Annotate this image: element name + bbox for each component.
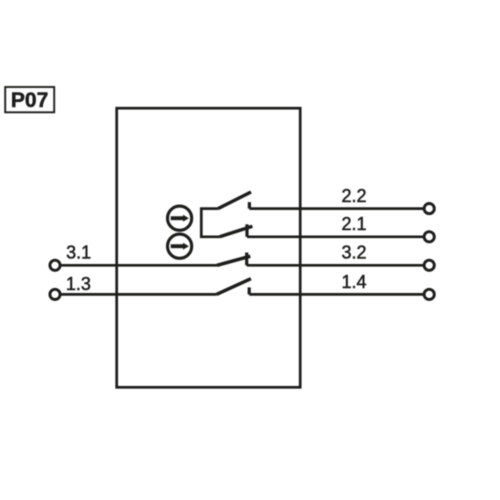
svg-text:2.2: 2.2	[341, 186, 366, 206]
svg-text:1.4: 1.4	[341, 272, 366, 292]
enclosure outline	[117, 108, 301, 387]
terminal 3.1	[50, 260, 60, 270]
fixed contact 3.2	[245, 253, 248, 266]
contact lever 2.1	[220, 226, 253, 237]
terminal 3.2	[424, 260, 434, 270]
contact lever 3.2	[217, 256, 250, 265]
terminal 1.3	[50, 289, 60, 299]
common bracket linking contacts 2.2 / 2.1	[201, 209, 219, 237]
terminal 2.2	[424, 204, 434, 214]
contact lever 1.4	[216, 279, 251, 295]
fixed contact 1.4	[248, 287, 251, 294]
svg-text:3.2: 3.2	[341, 243, 366, 263]
fixed contact 2.1	[245, 224, 248, 237]
wire 3.2	[247, 264, 424, 267]
actuator button A2 (circle with arrow)	[168, 234, 192, 258]
svg-text:P07: P07	[11, 89, 48, 112]
svg-text:1.3: 1.3	[66, 274, 91, 294]
wire 1.3	[61, 293, 216, 296]
terminal 1.4	[424, 289, 434, 299]
wire 1.4	[249, 293, 423, 296]
wire 3.1	[61, 264, 217, 267]
label P07	[5, 87, 54, 112]
actuator button A1 (circle with arrow)	[168, 206, 192, 230]
fixed contact 2.2	[248, 202, 251, 209]
wire 2.2	[249, 207, 423, 210]
contact lever 2.2	[218, 192, 251, 209]
wire 2.1	[247, 235, 423, 238]
terminal 2.1	[424, 232, 434, 242]
svg-text:3.1: 3.1	[66, 243, 91, 263]
svg-text:2.1: 2.1	[341, 214, 366, 234]
